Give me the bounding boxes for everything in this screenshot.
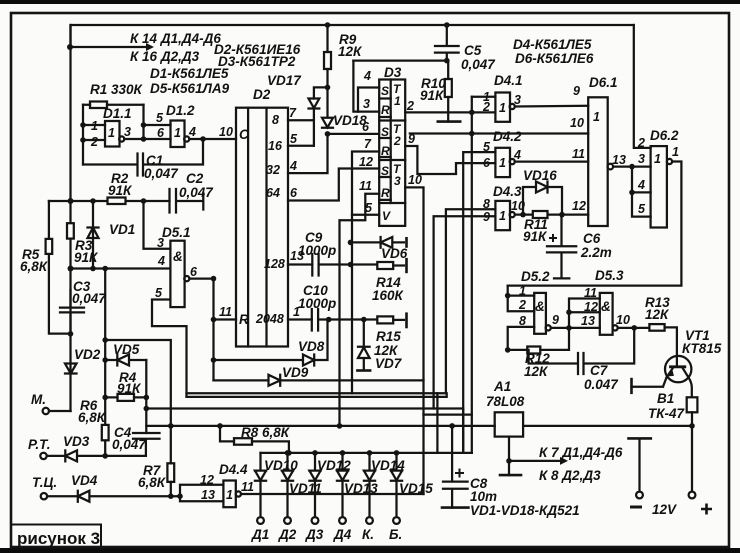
svg-text:8: 8 (483, 197, 490, 211)
svg-text:4: 4 (289, 159, 297, 173)
wire D6.2 out down to D5 block (508, 162, 682, 286)
capacitor C1 (83, 139, 203, 176)
svg-text:1: 1 (226, 488, 233, 502)
svg-text:D4.1: D4.1 (494, 73, 523, 88)
svg-text:C7: C7 (590, 363, 609, 378)
svg-text:91К: 91К (74, 250, 99, 265)
svg-text:C2: C2 (186, 171, 204, 186)
svg-text:0.047: 0.047 (584, 377, 619, 392)
IC D6.1 box (588, 97, 608, 226)
svg-text:78L08: 78L08 (486, 394, 525, 409)
gate D5.2 (534, 293, 546, 334)
svg-text:Б.: Б. (389, 527, 402, 542)
svg-text:VD17: VD17 (267, 73, 302, 88)
diode VD8 row (214, 320, 328, 366)
diode VD2 (65, 334, 77, 411)
diode matrix columns VD10-VD15 (255, 450, 402, 524)
svg-text:3: 3 (394, 174, 401, 188)
svg-text:9: 9 (552, 313, 559, 327)
wire D5.2 pin8 (508, 327, 535, 350)
svg-text:V: V (382, 209, 391, 223)
svg-text:6: 6 (290, 186, 298, 200)
svg-text:12К: 12К (524, 364, 549, 379)
capacitor C7 (529, 328, 635, 374)
svg-text:D6.1: D6.1 (589, 75, 618, 90)
svg-text:11: 11 (359, 179, 372, 193)
wire R8 branch (220, 426, 289, 453)
resistor R8 (234, 438, 252, 445)
svg-text:8: 8 (519, 314, 526, 328)
wire D5.3 out row (618, 327, 650, 329)
svg-text:91К: 91К (420, 88, 445, 103)
svg-text:4: 4 (188, 125, 196, 139)
svg-text:12К: 12К (338, 44, 363, 59)
svg-text:R: R (381, 186, 390, 200)
wire D5.2 inputs (508, 286, 535, 312)
svg-text:1000р: 1000р (298, 296, 336, 311)
svg-text:0,047: 0,047 (461, 57, 496, 72)
figure caption box (11, 525, 101, 549)
svg-text:3: 3 (363, 97, 370, 111)
svg-text:7: 7 (364, 137, 372, 151)
resistor R15 (377, 316, 393, 323)
svg-text:11: 11 (241, 480, 254, 494)
svg-text:3: 3 (124, 125, 131, 139)
svg-text:0,047: 0,047 (179, 185, 214, 200)
svg-text:Д4: Д4 (333, 527, 352, 542)
svg-text:2: 2 (637, 136, 645, 150)
label plus (701, 504, 712, 515)
svg-text:D4.2: D4.2 (493, 129, 522, 144)
svg-text:12: 12 (200, 473, 214, 487)
wire top supply bus (71, 25, 634, 47)
svg-text:D4.4: D4.4 (219, 462, 248, 477)
capacitor C3 (60, 290, 84, 334)
wire D4.1 out to D6.1 pin9 (515, 105, 588, 108)
resistor R2 (108, 198, 126, 205)
terminal bar C8 (442, 506, 468, 509)
svg-text:R8 6,8К: R8 6,8К (241, 425, 291, 440)
svg-text:C: C (239, 127, 249, 142)
svg-text:16: 16 (268, 139, 283, 153)
wire D4.2 pin5 vertical (463, 152, 495, 453)
svg-text:VD11: VD11 (289, 481, 322, 496)
wire top bus down to D6.2 pin2 (634, 25, 651, 148)
svg-text:VD1-VD18-КД521: VD1-VD18-КД521 (470, 503, 580, 518)
diode VD18 (322, 118, 333, 128)
svg-text:12V: 12V (652, 502, 677, 517)
minus terminal (638, 439, 640, 492)
wire C5 bottom node (353, 59, 448, 61)
svg-text:2: 2 (406, 99, 414, 113)
svg-text:VD2: VD2 (74, 347, 101, 362)
svg-text:VD5: VD5 (113, 342, 140, 357)
capacitor C5 (435, 25, 459, 61)
svg-text:9: 9 (408, 132, 415, 146)
diode VD11 column (285, 450, 291, 456)
wire VD5-R4 node row340 (105, 340, 171, 426)
svg-text:13: 13 (201, 488, 215, 502)
wire D3 pin5 V row (352, 214, 379, 216)
gate D4.1 (495, 93, 510, 122)
resistor R13 (649, 324, 664, 331)
svg-text:1: 1 (672, 145, 679, 159)
svg-text:&: & (535, 299, 545, 314)
wire C9 pin13 row (288, 263, 377, 265)
wire to D3 pin3 (353, 61, 379, 112)
buzzer B1 (687, 397, 698, 412)
svg-text:VD16: VD16 (523, 168, 557, 183)
svg-text:2: 2 (518, 298, 526, 312)
svg-text:1: 1 (654, 152, 661, 166)
svg-text:R: R (381, 103, 390, 117)
resistor R6 (102, 425, 109, 440)
svg-text:D1.2: D1.2 (166, 103, 195, 118)
svg-text:ТК-47: ТК-47 (648, 406, 686, 421)
svg-text:11: 11 (219, 305, 232, 319)
diode VD5 (105, 355, 146, 366)
svg-text:Р.Т.: Р.Т. (28, 437, 51, 452)
wire D3 pin10 long vertical (405, 187, 423, 494)
wire C10 pin1 row (288, 318, 377, 320)
svg-text:&: & (601, 299, 611, 314)
wire D5.3 inputs (569, 299, 600, 328)
svg-text:5: 5 (290, 132, 298, 146)
svg-text:VD10: VD10 (264, 458, 298, 473)
svg-text:S: S (381, 84, 389, 98)
svg-text:6,8К: 6,8К (138, 475, 167, 490)
resistor R7 (167, 463, 174, 482)
svg-text:рисунок 3: рисунок 3 (17, 529, 100, 548)
svg-text:13: 13 (612, 153, 626, 167)
svg-text:D5.1: D5.1 (162, 225, 191, 240)
gate D1.1 (105, 121, 120, 147)
gate D1.2 (171, 121, 185, 148)
svg-text:3: 3 (157, 236, 164, 250)
wire R5 branch (49, 201, 71, 334)
node left rail at R2 row (68, 198, 74, 204)
ground R10 (438, 120, 460, 123)
svg-text:М.: М. (31, 392, 46, 407)
svg-text:К 16 Д2,Д3: К 16 Д2,Д3 (130, 49, 200, 64)
svg-text:В1: В1 (657, 391, 674, 406)
diode VD15 column (394, 450, 400, 456)
wire VD18 to D3 pin6 (328, 133, 378, 135)
svg-text:0,047: 0,047 (112, 437, 147, 452)
diode VD10 column (255, 453, 266, 517)
gate D4.2 (495, 148, 510, 177)
capacitor C2 (170, 189, 204, 213)
svg-text:11: 11 (584, 286, 597, 300)
svg-text:10: 10 (570, 116, 584, 130)
svg-text:К.: К. (362, 527, 374, 542)
gate D5.1 (170, 241, 184, 307)
wire D4.4 out line (241, 493, 424, 495)
wire K14 arrow (70, 46, 146, 48)
svg-text:VD14: VD14 (371, 458, 405, 473)
IC D2 box (236, 108, 288, 347)
resistor R12 (527, 347, 540, 354)
svg-text:4: 4 (637, 178, 645, 192)
svg-text:КТ815: КТ815 (682, 341, 722, 356)
wire D1.1 input rail (83, 105, 105, 165)
svg-text:C5: C5 (464, 43, 482, 58)
wire VD18 down to D2 pin4 row32 (288, 134, 328, 173)
svg-text:К 8 Д2,Д3: К 8 Д2,Д3 (539, 468, 601, 483)
svg-text:D1.1: D1.1 (103, 106, 132, 121)
svg-text:13: 13 (581, 314, 595, 328)
svg-text:11: 11 (572, 147, 585, 161)
svg-text:А1: А1 (493, 379, 511, 394)
svg-text:D4.3: D4.3 (493, 184, 522, 199)
svg-text:D5.2: D5.2 (521, 269, 550, 284)
svg-text:D4-К561ЛЕ5: D4-К561ЛЕ5 (513, 37, 592, 52)
terminal bar R14 (405, 259, 408, 272)
wire D6.1 out (613, 165, 632, 167)
wire bus right of A1 (523, 425, 692, 427)
wire D4.4 inputs (180, 485, 223, 501)
terminal M. (49, 410, 71, 412)
diode VD12 column (312, 450, 318, 456)
svg-text:9: 9 (483, 210, 490, 224)
diode VD13 column (340, 450, 346, 456)
svg-text:0,047: 0,047 (72, 291, 107, 306)
svg-text:9: 9 (573, 84, 580, 98)
svg-text:2.2m: 2.2m (580, 245, 612, 260)
resistor R14 (377, 262, 393, 269)
svg-text:6,8К: 6,8К (20, 259, 49, 274)
svg-text:D1-К561ЛЕ5: D1-К561ЛЕ5 (150, 66, 229, 81)
plus terminal (691, 426, 693, 491)
svg-text:1: 1 (499, 209, 506, 223)
capacitor C9 (312, 254, 318, 276)
svg-text:Д3: Д3 (305, 527, 324, 542)
svg-text:VD1: VD1 (109, 222, 135, 237)
wire D3 pin11 R3 (340, 194, 380, 426)
svg-text:1: 1 (499, 101, 506, 115)
svg-text:D2: D2 (253, 87, 271, 102)
wire D4.3 pin9 (434, 216, 496, 408)
svg-text:4: 4 (157, 254, 165, 268)
capacitor C4 (133, 433, 160, 456)
svg-text:5: 5 (156, 111, 164, 125)
svg-text:6: 6 (483, 156, 491, 170)
wire vertical D3pin2 bus (471, 97, 473, 453)
wire R2 row (49, 200, 170, 202)
diode VD17 (309, 99, 320, 146)
svg-text:4: 4 (363, 69, 371, 83)
svg-text:12К: 12К (645, 307, 670, 322)
bottom scan strip (0, 548, 740, 553)
wire D1.2 out to D2 C pin (189, 138, 236, 140)
svg-text:1: 1 (91, 119, 98, 133)
capacitor C8 (443, 426, 468, 508)
gate D4.4 (223, 481, 235, 508)
svg-text:0,047: 0,047 (144, 166, 179, 181)
wire D1.1 out to D1.2 (124, 105, 170, 139)
resistor R11 (533, 211, 548, 218)
svg-text:2048: 2048 (255, 312, 284, 326)
wire D2 pin7 row8 (288, 119, 314, 121)
svg-text:D5.3: D5.3 (595, 268, 624, 283)
svg-text:S: S (381, 164, 389, 178)
top scan strip (0, 0, 740, 4)
wire D2 R pin11 (214, 318, 237, 320)
svg-text:VD3: VD3 (63, 434, 90, 449)
svg-text:D5-К561ЛА9: D5-К561ЛА9 (150, 81, 230, 96)
wire D2 pin6 row64 (288, 169, 379, 201)
wire D4.2 out to D6.1 pin11 (515, 160, 588, 162)
wire left main vertical (69, 25, 71, 334)
wire D5.1 out node (189, 279, 213, 381)
svg-text:10: 10 (616, 313, 630, 327)
wire D6.1 pin10 bus (410, 132, 588, 134)
terminal bar A1 gnd (500, 474, 521, 477)
svg-text:3: 3 (638, 152, 645, 166)
wire D5.1 pin5 loop (152, 300, 187, 397)
wire L1a to rail drop (436, 393, 438, 453)
svg-text:1: 1 (499, 156, 506, 170)
resistor R9 (324, 52, 331, 69)
wire D3 pin9 to D4.2 pin6 (405, 146, 495, 174)
node top-left junction (67, 44, 73, 50)
svg-text:VD7: VD7 (375, 356, 403, 371)
svg-text:91К: 91К (523, 229, 548, 244)
gate D5.3 (600, 293, 613, 335)
svg-text:Т.Ц.: Т.Ц. (32, 475, 57, 490)
svg-text:5: 5 (155, 286, 163, 300)
svg-text:D6.2: D6.2 (650, 128, 679, 143)
svg-text:10: 10 (219, 125, 233, 139)
terminal bar R15 (405, 314, 408, 327)
wire R2pin channel vertical (352, 152, 379, 394)
svg-text:1: 1 (394, 94, 401, 108)
svg-text:2: 2 (393, 134, 401, 148)
svg-text:1: 1 (519, 284, 526, 298)
svg-text:2: 2 (482, 100, 490, 114)
svg-text:&: & (173, 249, 183, 264)
wire D5.2 out row (551, 327, 600, 329)
terminal bar VD7 (357, 369, 370, 372)
wire D2 pin5 row16 (288, 145, 314, 147)
diode matrix top rail (261, 452, 472, 454)
wire D4.3 out node (515, 213, 588, 215)
svg-text:R: R (239, 312, 249, 327)
label minus (630, 506, 642, 509)
transistor VT1 (665, 356, 691, 382)
terminal P.T. and diode VD3 (40, 453, 46, 459)
svg-text:10m: 10m (470, 489, 497, 504)
diode VD6 (351, 237, 405, 248)
svg-text:D3-К561ТР2: D3-К561ТР2 (218, 54, 296, 69)
wire D4.3 pin8 (446, 209, 496, 393)
wire A1 ground pin (508, 437, 510, 476)
svg-text:4: 4 (513, 148, 521, 162)
svg-text:R15: R15 (376, 329, 401, 344)
svg-text:К 7 Д1,Д4-Д6: К 7 Д1,Д4-Д6 (539, 445, 623, 460)
wire row268 to D5.1 pin4 (71, 267, 171, 269)
IC A1 78L08 (495, 412, 523, 436)
svg-text:VD6: VD6 (381, 246, 408, 261)
svg-text:1: 1 (593, 110, 600, 124)
wire D5.1 pin3 (144, 201, 171, 249)
svg-text:R1 330К: R1 330К (90, 82, 144, 97)
svg-text:S: S (381, 125, 389, 139)
svg-text:VD9: VD9 (282, 365, 309, 380)
resistor R3 (67, 223, 74, 238)
wire R9 to VD17 (314, 87, 328, 98)
svg-text:VD15: VD15 (399, 481, 433, 496)
node left rail at 268 row (68, 266, 74, 272)
wire main bottom bus (146, 425, 494, 427)
wire y414 link (424, 413, 472, 415)
diode VD14 column (367, 450, 373, 456)
diode VD9 row (214, 375, 424, 386)
capacitor C10 (312, 309, 318, 331)
wire left column vertical (104, 269, 106, 456)
svg-text:VD8: VD8 (298, 339, 325, 354)
wire L2 row (146, 409, 463, 453)
svg-text:1: 1 (174, 126, 181, 140)
svg-text:7: 7 (289, 106, 297, 120)
wire D3 pin4 stub (358, 88, 379, 112)
svg-text:5: 5 (483, 140, 491, 154)
diode VD16 (523, 182, 562, 215)
svg-text:D3: D3 (384, 65, 402, 80)
gate D6.2 (651, 146, 667, 227)
svg-text:1000р: 1000р (298, 243, 336, 258)
svg-text:10: 10 (408, 173, 422, 187)
svg-text:Д2: Д2 (278, 527, 297, 542)
diode VD1 (88, 201, 99, 269)
svg-text:10: 10 (511, 199, 525, 213)
svg-text:8: 8 (272, 113, 279, 127)
svg-text:64: 64 (266, 186, 280, 200)
svg-text:2: 2 (90, 135, 98, 149)
wire D6.2 input group (632, 167, 651, 217)
resistor R4 (118, 394, 135, 401)
resistor R10 (445, 79, 452, 97)
svg-text:1: 1 (108, 126, 115, 140)
svg-text:12: 12 (572, 199, 586, 213)
svg-text:6,8К: 6,8К (78, 410, 107, 425)
gate D4.3 (495, 201, 510, 230)
svg-text:5: 5 (638, 202, 646, 216)
terminal bar VT1 base (630, 379, 633, 393)
svg-text:12: 12 (359, 155, 373, 169)
svg-text:32: 32 (266, 163, 280, 177)
svg-text:R: R (381, 144, 390, 158)
svg-text:91К: 91К (117, 381, 142, 396)
wire D3 pin2 row to D4.1 (405, 111, 495, 113)
svg-text:Д1: Д1 (251, 527, 269, 542)
capacitor C6 (547, 215, 576, 279)
svg-text:160К: 160К (372, 288, 405, 303)
svg-text:VD12: VD12 (317, 458, 351, 473)
svg-text:VD13: VD13 (344, 481, 378, 496)
svg-text:6: 6 (190, 265, 198, 279)
resistor R1 (90, 102, 107, 109)
wire VD5-R4 right vertical (145, 360, 147, 433)
svg-text:128: 128 (264, 257, 285, 271)
arrow K7/K8 (509, 460, 560, 462)
svg-text:12: 12 (584, 300, 598, 314)
wire D4.1 pin1 (472, 96, 496, 98)
svg-text:D6-К561ЛЕ6: D6-К561ЛЕ6 (515, 51, 594, 66)
diode VD7 (358, 320, 370, 370)
terminal bar VD6 (405, 238, 408, 246)
svg-text:5: 5 (365, 201, 373, 215)
